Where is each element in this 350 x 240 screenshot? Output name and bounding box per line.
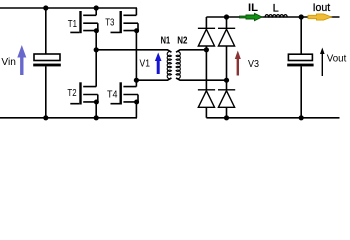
node output cap bottom	[299, 115, 304, 120]
arrow V3 (maroon up)	[235, 51, 241, 76]
node bridge top right	[224, 14, 229, 19]
node bridge left mid	[204, 47, 209, 52]
wire bridge right column	[226, 17, 228, 118]
wire secondary bottom (N2 to bridge right column)	[176, 78, 226, 80]
diode D2 top-right	[218, 28, 235, 46]
transistor T1	[70, 11, 99, 33]
wire primary bottom (leg B tap to N1)	[136, 78, 171, 80]
node leg B midpoint	[134, 78, 139, 83]
wire top rail primary side	[0, 7, 137, 9]
capacitor Cout	[287, 54, 313, 66]
transistor T2	[70, 82, 99, 104]
svg-text:V3: V3	[248, 59, 259, 70]
svg-text:T4: T4	[107, 89, 118, 101]
wire bridge bottom rail to output	[206, 117, 339, 119]
wire primary top (leg A tap to N1)	[96, 50, 171, 52]
transistor T3	[111, 11, 140, 33]
diode D1 top-left	[198, 28, 215, 46]
arrow Iout (yellow right)	[308, 14, 332, 20]
svg-text:L: L	[273, 2, 279, 14]
wire input cap branch top	[45, 8, 47, 54]
wire input cap branch bottom	[45, 66, 47, 117]
arrow Vin (blue up)	[17, 45, 26, 75]
wire output cap branch bottom	[300, 66, 302, 117]
node bridge bottom right	[224, 115, 229, 120]
node bridge right mid	[224, 78, 229, 83]
svg-text:N2: N2	[177, 35, 187, 47]
node leg A top	[94, 5, 99, 10]
wire bridge left column	[205, 17, 207, 118]
svg-text:T2: T2	[67, 87, 76, 99]
node leg A midpoint	[94, 47, 99, 52]
svg-text:N1: N1	[161, 35, 171, 47]
wire bridge top rail to output	[206, 16, 339, 18]
transistor T4	[111, 82, 140, 104]
arrow Vout (black up)	[320, 48, 325, 77]
transformer secondary winding N2	[176, 52, 180, 79]
svg-text:Vin: Vin	[1, 57, 16, 68]
svg-text:IL: IL	[248, 2, 258, 14]
node input cap top	[43, 5, 48, 10]
node output cap top	[299, 14, 304, 19]
svg-text:Iout: Iout	[313, 2, 331, 14]
wire leg A vertical	[95, 8, 97, 118]
wire leg B vertical	[135, 8, 137, 118]
wire secondary top (N2 to bridge left column)	[176, 50, 206, 52]
diode D3 bottom-left	[198, 90, 215, 108]
svg-text:T1: T1	[68, 18, 77, 30]
svg-text:T3: T3	[105, 17, 114, 29]
transformer primary winding N1	[167, 52, 171, 79]
wire bottom rail primary side	[0, 117, 137, 119]
node leg A bottom	[94, 115, 99, 120]
capacitor Cin	[33, 54, 61, 66]
arrow V1 (blue up)	[155, 53, 162, 75]
inductor L	[265, 15, 287, 18]
wire output cap branch top	[300, 17, 302, 54]
svg-text:V1: V1	[140, 59, 151, 70]
node input cap bottom	[43, 115, 48, 120]
arrow IL (green right)	[240, 13, 263, 20]
svg-text:Vout: Vout	[327, 54, 347, 65]
diode D4 bottom-right	[218, 90, 235, 108]
